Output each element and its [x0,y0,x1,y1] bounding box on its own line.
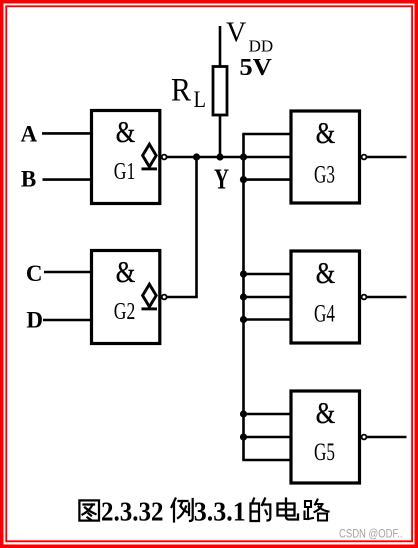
junction bus G5 middle [240,433,247,440]
svg-text:Y: Y [214,165,229,196]
junction bus G3 bottom [240,176,247,183]
junction at resistor and Y [216,153,223,160]
junction bus G4 top [240,270,247,277]
svg-text:R: R [171,73,191,109]
hanzi DE (of) [251,499,271,522]
hanzi LU (road) [305,500,329,521]
svg-text:G2: G2 [114,299,136,325]
gate G4 [291,251,366,343]
gate G3 [291,111,366,203]
svg-text:G5: G5 [314,439,335,466]
open-drain symbol G1 [143,144,157,167]
wire B input [43,178,93,181]
wire resistor to node Y [219,114,222,158]
gate G5 [291,391,366,483]
svg-text:C: C [26,261,43,286]
caption 图2.3.32 例3.3.1的电路 [79,496,328,526]
svg-text:2.3.32: 2.3.32 [101,496,164,526]
svg-text:5V: 5V [239,55,272,81]
svg-text:CSDN @ODF..: CSDN @ODF.. [339,528,403,540]
svg-text:D: D [26,308,43,333]
wire G4 output [366,296,406,299]
svg-text:G4: G4 [314,301,335,328]
wire G2 output riser [167,156,197,297]
svg-text:G1: G1 [114,159,136,185]
wire Y bus horizontal [167,156,292,159]
wire G3 output [366,156,406,159]
svg-text:&: & [316,116,336,150]
svg-text:&: & [116,115,136,149]
hanzi DIAN (electric) [278,499,299,520]
gate G1 [92,111,167,204]
wire G4 bottom input [242,318,292,321]
junction bus G5 top [240,410,247,417]
wire G4 middle input [242,296,292,299]
svg-text:V: V [226,17,246,48]
svg-text:B: B [21,167,36,192]
hanzi LI (example) [172,499,193,522]
svg-text:A: A [20,121,37,146]
wire G3 bottom input [242,178,292,181]
svg-text:3.3.1: 3.3.1 [194,496,246,526]
open-drain symbol G2 [143,284,157,307]
wire G5 middle input [242,436,292,439]
wire VDD to resistor [219,26,222,67]
gate G2 [92,251,167,344]
output bubble G3 [362,155,367,160]
output bubble G4 [362,295,367,300]
svg-text:DD: DD [249,37,274,56]
junction at G2 riser and Y [193,153,200,160]
wire C input [44,271,92,274]
junction bus G4 bottom [240,316,247,323]
wire G5 output [366,436,406,439]
resistor RL [171,67,227,116]
junction bus G4 middle [240,293,247,300]
wire A input [42,132,92,135]
junction bus at Y [240,153,247,160]
output bubble G1 [162,155,167,160]
svg-text:&: & [316,396,336,430]
svg-text:L: L [194,87,207,112]
hanzi TU (figure) [79,500,99,520]
output bubble G5 [362,435,367,440]
output bubble G2 [162,295,167,300]
power VDD [226,17,273,81]
wire G5 bottom input [242,459,292,462]
svg-text:&: & [116,255,136,289]
wire G5 top input [242,413,292,416]
svg-text:G3: G3 [314,162,335,189]
wire G3 top input [242,133,292,136]
wire G4 top input [242,273,292,276]
svg-text:&: & [316,256,336,290]
wire D input [43,319,92,322]
wire vertical bus [242,134,245,460]
